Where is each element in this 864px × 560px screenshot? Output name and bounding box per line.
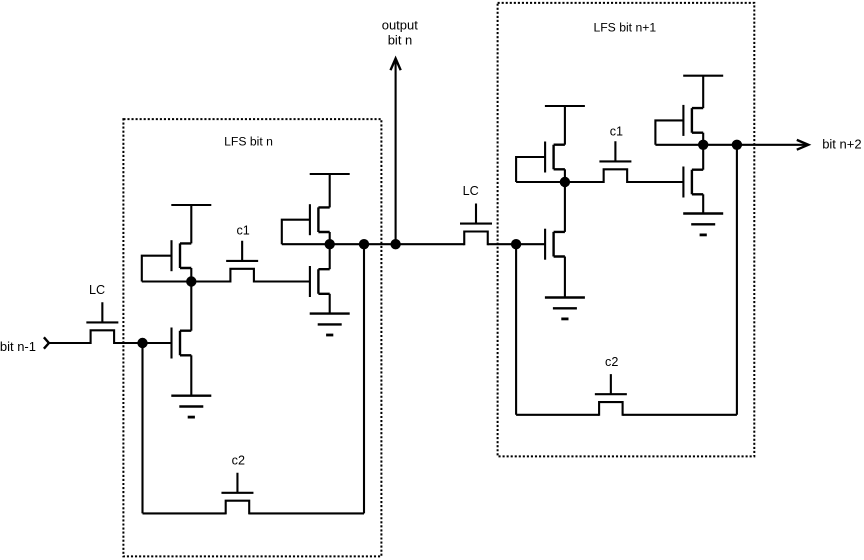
wire	[141, 343, 143, 513]
transistor M7 driver (LFS bit n+1 stage 2)	[683, 167, 703, 198]
pass transistor c2 (LFS bit n feedback)	[221, 473, 253, 515]
wire	[564, 257, 566, 298]
wire	[702, 133, 704, 145]
wire	[564, 106, 566, 145]
arrowhead output	[391, 59, 401, 71]
dotted block boundary LFS bit n	[123, 119, 381, 556]
power rail	[171, 204, 211, 206]
wire	[564, 182, 566, 232]
ground	[310, 314, 350, 335]
svg-text:bit n: bit n	[388, 32, 413, 47]
wire	[143, 512, 226, 514]
svg-text:LFS bit n+1: LFS bit n+1	[593, 20, 656, 34]
transistor M1 driver (LFS bit n stage 1)	[172, 328, 192, 359]
svg-text:LC: LC	[89, 283, 105, 297]
wire	[282, 220, 310, 245]
dotted block boundary LFS bit n+1	[498, 3, 755, 457]
wire	[249, 512, 364, 514]
input connector chevron	[44, 337, 49, 348]
transistor M5 driver (LFS bit n+1 stage 1)	[545, 229, 565, 260]
transistor M2 load (LFS bit n stage 1)	[172, 240, 192, 271]
wire	[329, 232, 331, 244]
wire	[329, 174, 331, 207]
wire	[736, 145, 738, 415]
pass transistor LC (bit n input clock)	[86, 302, 118, 344]
wire	[516, 181, 565, 183]
wire	[515, 244, 517, 415]
svg-text:bit n+2: bit n+2	[822, 136, 861, 151]
wire	[516, 157, 545, 182]
wire	[564, 169, 566, 182]
wire	[329, 294, 331, 314]
wire	[363, 244, 365, 513]
svg-text:c2: c2	[232, 453, 245, 467]
pass transistor LC (bit n+1 input clock)	[460, 204, 492, 246]
wire	[655, 144, 703, 146]
wire	[282, 243, 330, 245]
wire	[190, 355, 192, 395]
wire	[655, 120, 683, 144]
transistor M3 driver (LFS bit n stage 2)	[310, 266, 330, 297]
wire	[516, 414, 599, 416]
svg-text:c1: c1	[610, 124, 623, 138]
node: stage 1 output (LFS bit n)	[186, 276, 196, 286]
pass transistor c1 (LFS bit n)	[226, 241, 258, 283]
node: input node of LFS bit n	[137, 338, 147, 348]
wire	[702, 145, 704, 170]
node: c2 feedback tap	[359, 239, 369, 249]
node: output tap	[390, 239, 400, 249]
power rail	[683, 75, 723, 77]
wire	[702, 76, 704, 108]
wire	[190, 282, 192, 331]
svg-text:c2: c2	[605, 355, 618, 369]
transistor M4 load (LFS bit n stage 2)	[310, 204, 330, 235]
svg-text:LC: LC	[463, 184, 479, 198]
ground	[171, 396, 211, 417]
wire	[395, 59, 397, 245]
node: bit n output node	[325, 239, 335, 249]
svg-text:bit n-1: bit n-1	[0, 339, 36, 354]
transistor M6 load (LFS bit n+1 stage 1)	[545, 142, 565, 173]
wire	[49, 342, 91, 344]
wire	[737, 144, 808, 146]
wire	[190, 268, 192, 282]
wire	[142, 280, 192, 282]
svg-text:LFS bit n: LFS bit n	[224, 135, 273, 149]
node: input node of LFS bit n+1	[511, 239, 521, 249]
wire	[142, 256, 172, 282]
wire	[627, 181, 683, 183]
transistor M8 load (LFS bit n+1 stage 2)	[683, 105, 703, 136]
arrowhead bit n+2	[797, 140, 809, 150]
wire	[254, 280, 310, 282]
pass transistor c2 (LFS bit n+1 feedback)	[595, 374, 627, 416]
ground	[545, 298, 585, 319]
node: c2 feedback tap (bit n+1)	[732, 140, 742, 150]
ground	[683, 214, 723, 235]
node: stage 1 output (LFS bit n+1)	[560, 177, 570, 187]
wire	[623, 414, 737, 416]
wire	[114, 342, 171, 344]
power rail	[545, 105, 585, 107]
power rail	[310, 173, 350, 175]
wire	[330, 243, 465, 245]
wire	[190, 205, 192, 243]
pass transistor c1 (LFS bit n+1)	[599, 141, 631, 183]
svg-text:c1: c1	[236, 224, 249, 238]
svg-text:output: output	[382, 17, 419, 32]
wire	[565, 181, 604, 183]
wire	[702, 194, 704, 213]
wire	[329, 244, 331, 269]
wire	[703, 144, 737, 146]
wire	[191, 280, 230, 282]
wire	[488, 243, 545, 245]
node: bit n+1 output node	[698, 140, 708, 150]
